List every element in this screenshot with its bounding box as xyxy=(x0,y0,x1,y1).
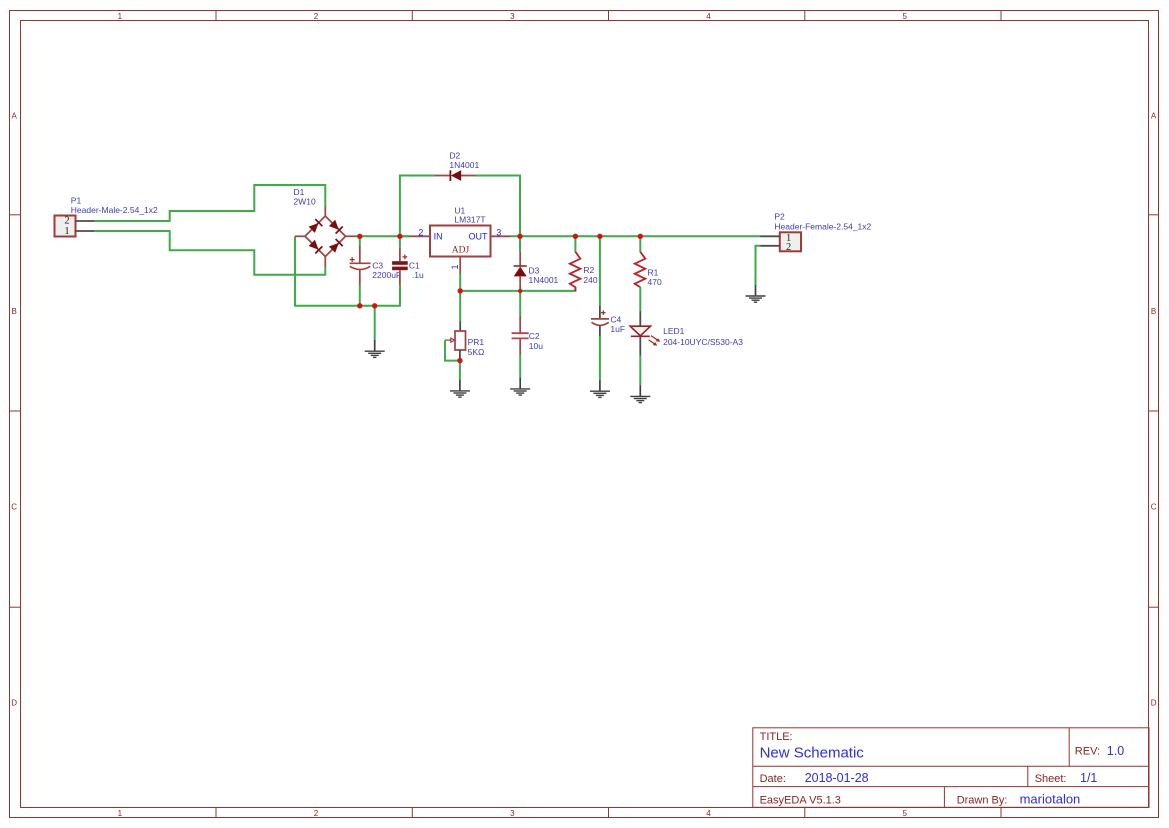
wire ADJ riser xyxy=(459,274,461,322)
bridge D1 top pin stub xyxy=(324,206,326,216)
wire R2 top xyxy=(574,236,576,252)
regulator U1 body xyxy=(430,226,491,257)
C2 top plate xyxy=(512,332,529,334)
wire OUT segment to P2 xyxy=(510,235,760,237)
svg-text:R1: R1 xyxy=(648,268,659,278)
svg-text:240: 240 xyxy=(583,275,597,285)
diode D2 triangle xyxy=(451,170,461,181)
LED1 bottom wire xyxy=(639,356,641,386)
svg-text:.1u: .1u xyxy=(412,270,424,280)
C1 bottom pin xyxy=(399,270,401,285)
row tick left B/C xyxy=(10,410,21,412)
svg-text:D: D xyxy=(1151,699,1157,708)
svg-text:D2: D2 xyxy=(449,150,460,160)
svg-text:1/1: 1/1 xyxy=(1080,771,1097,785)
C3 bottom wire xyxy=(359,285,361,306)
D1 diode bottom-right triangle xyxy=(329,243,339,253)
svg-text:2W10: 2W10 xyxy=(294,197,316,207)
row tick right A/B xyxy=(1149,214,1159,216)
D1 diode bottom-right cathode bar xyxy=(336,239,343,246)
svg-text:2: 2 xyxy=(786,242,791,253)
D1 diode bottom-left cathode bar xyxy=(315,246,322,253)
C4 curved negative plate xyxy=(592,322,609,325)
PR1 bottom wire to ground xyxy=(459,361,461,380)
LED1 anode pin xyxy=(639,311,641,326)
D1 diode top-right triangle xyxy=(329,220,339,230)
D2 anode pin stub xyxy=(461,175,475,177)
svg-text:2: 2 xyxy=(314,809,319,818)
C2 bottom wire xyxy=(519,354,521,378)
junction node R1 top xyxy=(638,234,643,239)
LED1 cathode bar xyxy=(631,335,650,337)
svg-text:PR1: PR1 xyxy=(468,337,485,347)
D3 cathode pin xyxy=(519,252,521,266)
connector P1 body xyxy=(55,216,76,237)
column tick top 1 xyxy=(215,11,217,21)
junction node bridge plus xyxy=(357,234,362,239)
svg-text:1: 1 xyxy=(118,12,123,21)
column tick top 2 xyxy=(411,11,413,21)
C4 plus sign xyxy=(601,310,606,315)
column tick top 4 xyxy=(804,11,806,21)
svg-text:Drawn By:: Drawn By: xyxy=(957,794,1008,806)
svg-text:2: 2 xyxy=(314,12,319,21)
C4 positive plate xyxy=(591,318,609,320)
title block row line 1 xyxy=(753,765,1149,767)
junction node C1 top xyxy=(397,234,402,239)
junction node C3 bottom xyxy=(357,303,362,308)
D1 diode bottom-left triangle xyxy=(309,240,319,250)
C4 top pin xyxy=(599,306,601,319)
title block row line 2 xyxy=(753,786,1149,788)
row tick right C/D xyxy=(1149,606,1159,608)
D1 diode top-left cathode bar xyxy=(315,219,322,226)
svg-text:3: 3 xyxy=(496,228,501,238)
wire bridge minus to bottom rail xyxy=(295,236,400,305)
wire main rail IN segment xyxy=(400,235,410,237)
svg-text:5KΩ: 5KΩ xyxy=(468,347,485,357)
svg-text:IN: IN xyxy=(434,231,443,241)
svg-text:1: 1 xyxy=(118,809,123,818)
column tick bottom 2 xyxy=(411,808,413,818)
wire D2 left riser xyxy=(400,176,435,237)
svg-text:D1: D1 xyxy=(294,187,305,197)
svg-text:Header-Female-2.54_1x2: Header-Female-2.54_1x2 xyxy=(774,221,871,231)
ground symbol below PR1 xyxy=(450,380,470,397)
svg-text:LM317T: LM317T xyxy=(454,215,485,225)
PR1 wiper wire xyxy=(445,340,460,361)
svg-text:R2: R2 xyxy=(583,265,594,275)
U1 OUT pin stub xyxy=(491,235,511,237)
svg-text:C3: C3 xyxy=(372,260,383,270)
C2 bottom pin xyxy=(519,339,521,355)
junction node OUT xyxy=(517,234,522,239)
svg-text:5: 5 xyxy=(902,809,907,818)
svg-text:1uF: 1uF xyxy=(610,324,625,334)
LED1 emission arrow 1 xyxy=(651,336,660,342)
wire ADJ rail to R2 xyxy=(460,287,575,291)
svg-text:204-10UYC/S530-A3: 204-10UYC/S530-A3 xyxy=(663,337,743,347)
C2 top pin xyxy=(519,316,521,333)
junction node ground rail xyxy=(372,303,377,308)
svg-text:D3: D3 xyxy=(529,265,540,275)
row tick left A/B xyxy=(10,214,21,216)
C1 plus sign xyxy=(403,255,408,260)
C1 bottom plate bar xyxy=(392,267,408,271)
D1 diode top-left triangle xyxy=(309,223,319,233)
U1 ADJ pin stub xyxy=(459,257,461,275)
title block outline xyxy=(753,728,1149,808)
title block Sheet separator xyxy=(1027,766,1029,786)
title block REV separator xyxy=(1068,728,1070,767)
svg-text:OUT: OUT xyxy=(469,231,489,241)
C3 top pin xyxy=(359,246,361,263)
D2 cathode pin stub xyxy=(435,175,451,177)
column tick bottom 4 xyxy=(804,808,806,818)
svg-text:3: 3 xyxy=(510,809,515,818)
bridge rectifier D1 diamond xyxy=(305,216,346,257)
capacitor C1 top wire xyxy=(399,236,401,248)
C4 bottom pin xyxy=(599,325,601,336)
svg-text:1: 1 xyxy=(64,226,69,237)
LED1 triangle xyxy=(630,326,650,336)
bridge D1 left pin stub xyxy=(295,235,305,237)
svg-text:1N4001: 1N4001 xyxy=(529,275,559,285)
svg-text:C: C xyxy=(1151,503,1157,512)
bridge D1 right pin stub xyxy=(345,235,355,237)
svg-text:3: 3 xyxy=(510,12,515,21)
U1 IN pin stub xyxy=(410,235,430,237)
C1 top plate bar xyxy=(392,261,408,265)
junction node R2 top xyxy=(573,234,578,239)
svg-text:10u: 10u xyxy=(529,341,543,351)
diode D2 cathode bar xyxy=(449,170,451,181)
column tick top 3 xyxy=(608,11,610,21)
svg-text:C: C xyxy=(11,503,17,512)
LED1 cathode pin xyxy=(639,336,641,355)
wire P1 pin2 to bridge AC1 xyxy=(95,185,326,221)
svg-text:A: A xyxy=(1151,111,1157,120)
C4 bottom wire xyxy=(599,336,601,380)
resistor R1 zigzag xyxy=(635,252,646,287)
wire OUT to D3 xyxy=(519,236,521,252)
C3 plus sign xyxy=(350,257,355,262)
C2 bottom plate xyxy=(512,337,529,339)
junction node C4 top xyxy=(597,234,602,239)
junction node PR1 bottom xyxy=(457,358,462,363)
svg-text:Date:: Date: xyxy=(760,773,786,785)
ground wire below bottom rail xyxy=(374,306,376,340)
wire C4 top xyxy=(599,236,601,306)
column tick bottom 3 xyxy=(608,808,610,818)
svg-text:New Schematic: New Schematic xyxy=(760,744,865,761)
PR1 bottom pin xyxy=(459,350,461,361)
svg-text:2: 2 xyxy=(418,227,423,237)
svg-text:1N4001: 1N4001 xyxy=(449,160,479,170)
ground symbol below C4 xyxy=(590,380,610,397)
svg-text:2200uF: 2200uF xyxy=(372,270,401,280)
ground symbol below LED1 xyxy=(630,385,650,402)
wire P2 pin2 to ground xyxy=(756,246,761,285)
column tick bottom 1 xyxy=(215,808,217,818)
PR1 wiper arrow xyxy=(445,338,455,342)
svg-text:1: 1 xyxy=(450,264,460,269)
D1 diode top-right cathode bar xyxy=(336,227,343,234)
svg-text:D: D xyxy=(11,699,17,708)
C3 positive plate xyxy=(350,262,371,264)
svg-text:Sheet:: Sheet: xyxy=(1035,773,1067,785)
svg-text:5: 5 xyxy=(902,12,907,21)
svg-text:A: A xyxy=(12,111,18,120)
ground symbol below P2 xyxy=(746,285,766,302)
wire R1 top xyxy=(639,236,641,252)
PR1 body xyxy=(455,331,466,350)
svg-text:2018-01-28: 2018-01-28 xyxy=(805,771,869,785)
column tick top 5 xyxy=(1000,11,1002,21)
row tick right B/C xyxy=(1149,410,1159,412)
wire D2 right riser xyxy=(475,176,520,237)
P2 pin 1 stub xyxy=(760,235,780,237)
svg-text:P1: P1 xyxy=(71,196,82,206)
diode D3 triangle xyxy=(514,267,527,277)
svg-text:B: B xyxy=(1151,307,1156,316)
svg-text:4: 4 xyxy=(706,12,711,21)
resistor R2 zigzag xyxy=(570,252,581,291)
capacitor C3 top wire xyxy=(359,236,361,246)
svg-text:LED1: LED1 xyxy=(663,326,685,336)
C1 top pin xyxy=(399,248,401,261)
svg-text:TITLE:: TITLE: xyxy=(760,731,793,743)
column tick bottom 5 xyxy=(1000,808,1002,818)
svg-text:P2: P2 xyxy=(774,212,785,222)
diode D3 cathode bar xyxy=(514,265,527,267)
wire R1 to LED1 xyxy=(639,287,641,312)
svg-text:ADJ: ADJ xyxy=(452,246,470,256)
wire D3 to C2 xyxy=(519,291,521,317)
ground symbol below C2 xyxy=(510,378,530,395)
svg-text:mariotalon: mariotalon xyxy=(1020,791,1081,806)
title block DrawnBy separator xyxy=(943,787,945,808)
svg-text:B: B xyxy=(12,307,17,316)
C3 bottom pin xyxy=(359,270,361,285)
junction node ADJ xyxy=(458,288,463,293)
bridge D1 bottom pin stub xyxy=(324,256,326,267)
svg-text:EasyEDA V5.1.3: EasyEDA V5.1.3 xyxy=(760,794,841,806)
ground symbol at bottom rail xyxy=(365,340,385,357)
svg-text:2: 2 xyxy=(64,215,69,226)
svg-text:C2: C2 xyxy=(529,331,540,341)
potentiometer PR1 top pin xyxy=(459,321,461,331)
P2 pin 2 stub xyxy=(760,245,780,247)
row tick left C/D xyxy=(10,606,21,608)
connector P2 body xyxy=(780,232,801,251)
D3 anode pin xyxy=(519,276,521,291)
svg-text:REV:: REV: xyxy=(1075,746,1100,758)
svg-text:C1: C1 xyxy=(409,260,420,270)
svg-text:470: 470 xyxy=(648,277,662,287)
wire bridge plus to main rail xyxy=(355,235,410,237)
svg-text:4: 4 xyxy=(706,809,711,818)
junction node D3 anode xyxy=(518,289,522,293)
LED1 emission arrow 2 xyxy=(649,340,658,346)
C3 curved negative plate xyxy=(350,266,371,269)
P1 pin 2 stub xyxy=(76,220,95,222)
svg-text:1.0: 1.0 xyxy=(1107,744,1124,758)
svg-text:Header-Male-2.54_1x2: Header-Male-2.54_1x2 xyxy=(71,205,158,215)
wire P1 pin1 to bridge AC2 xyxy=(95,231,326,275)
P1 pin 1 stub xyxy=(76,230,95,232)
